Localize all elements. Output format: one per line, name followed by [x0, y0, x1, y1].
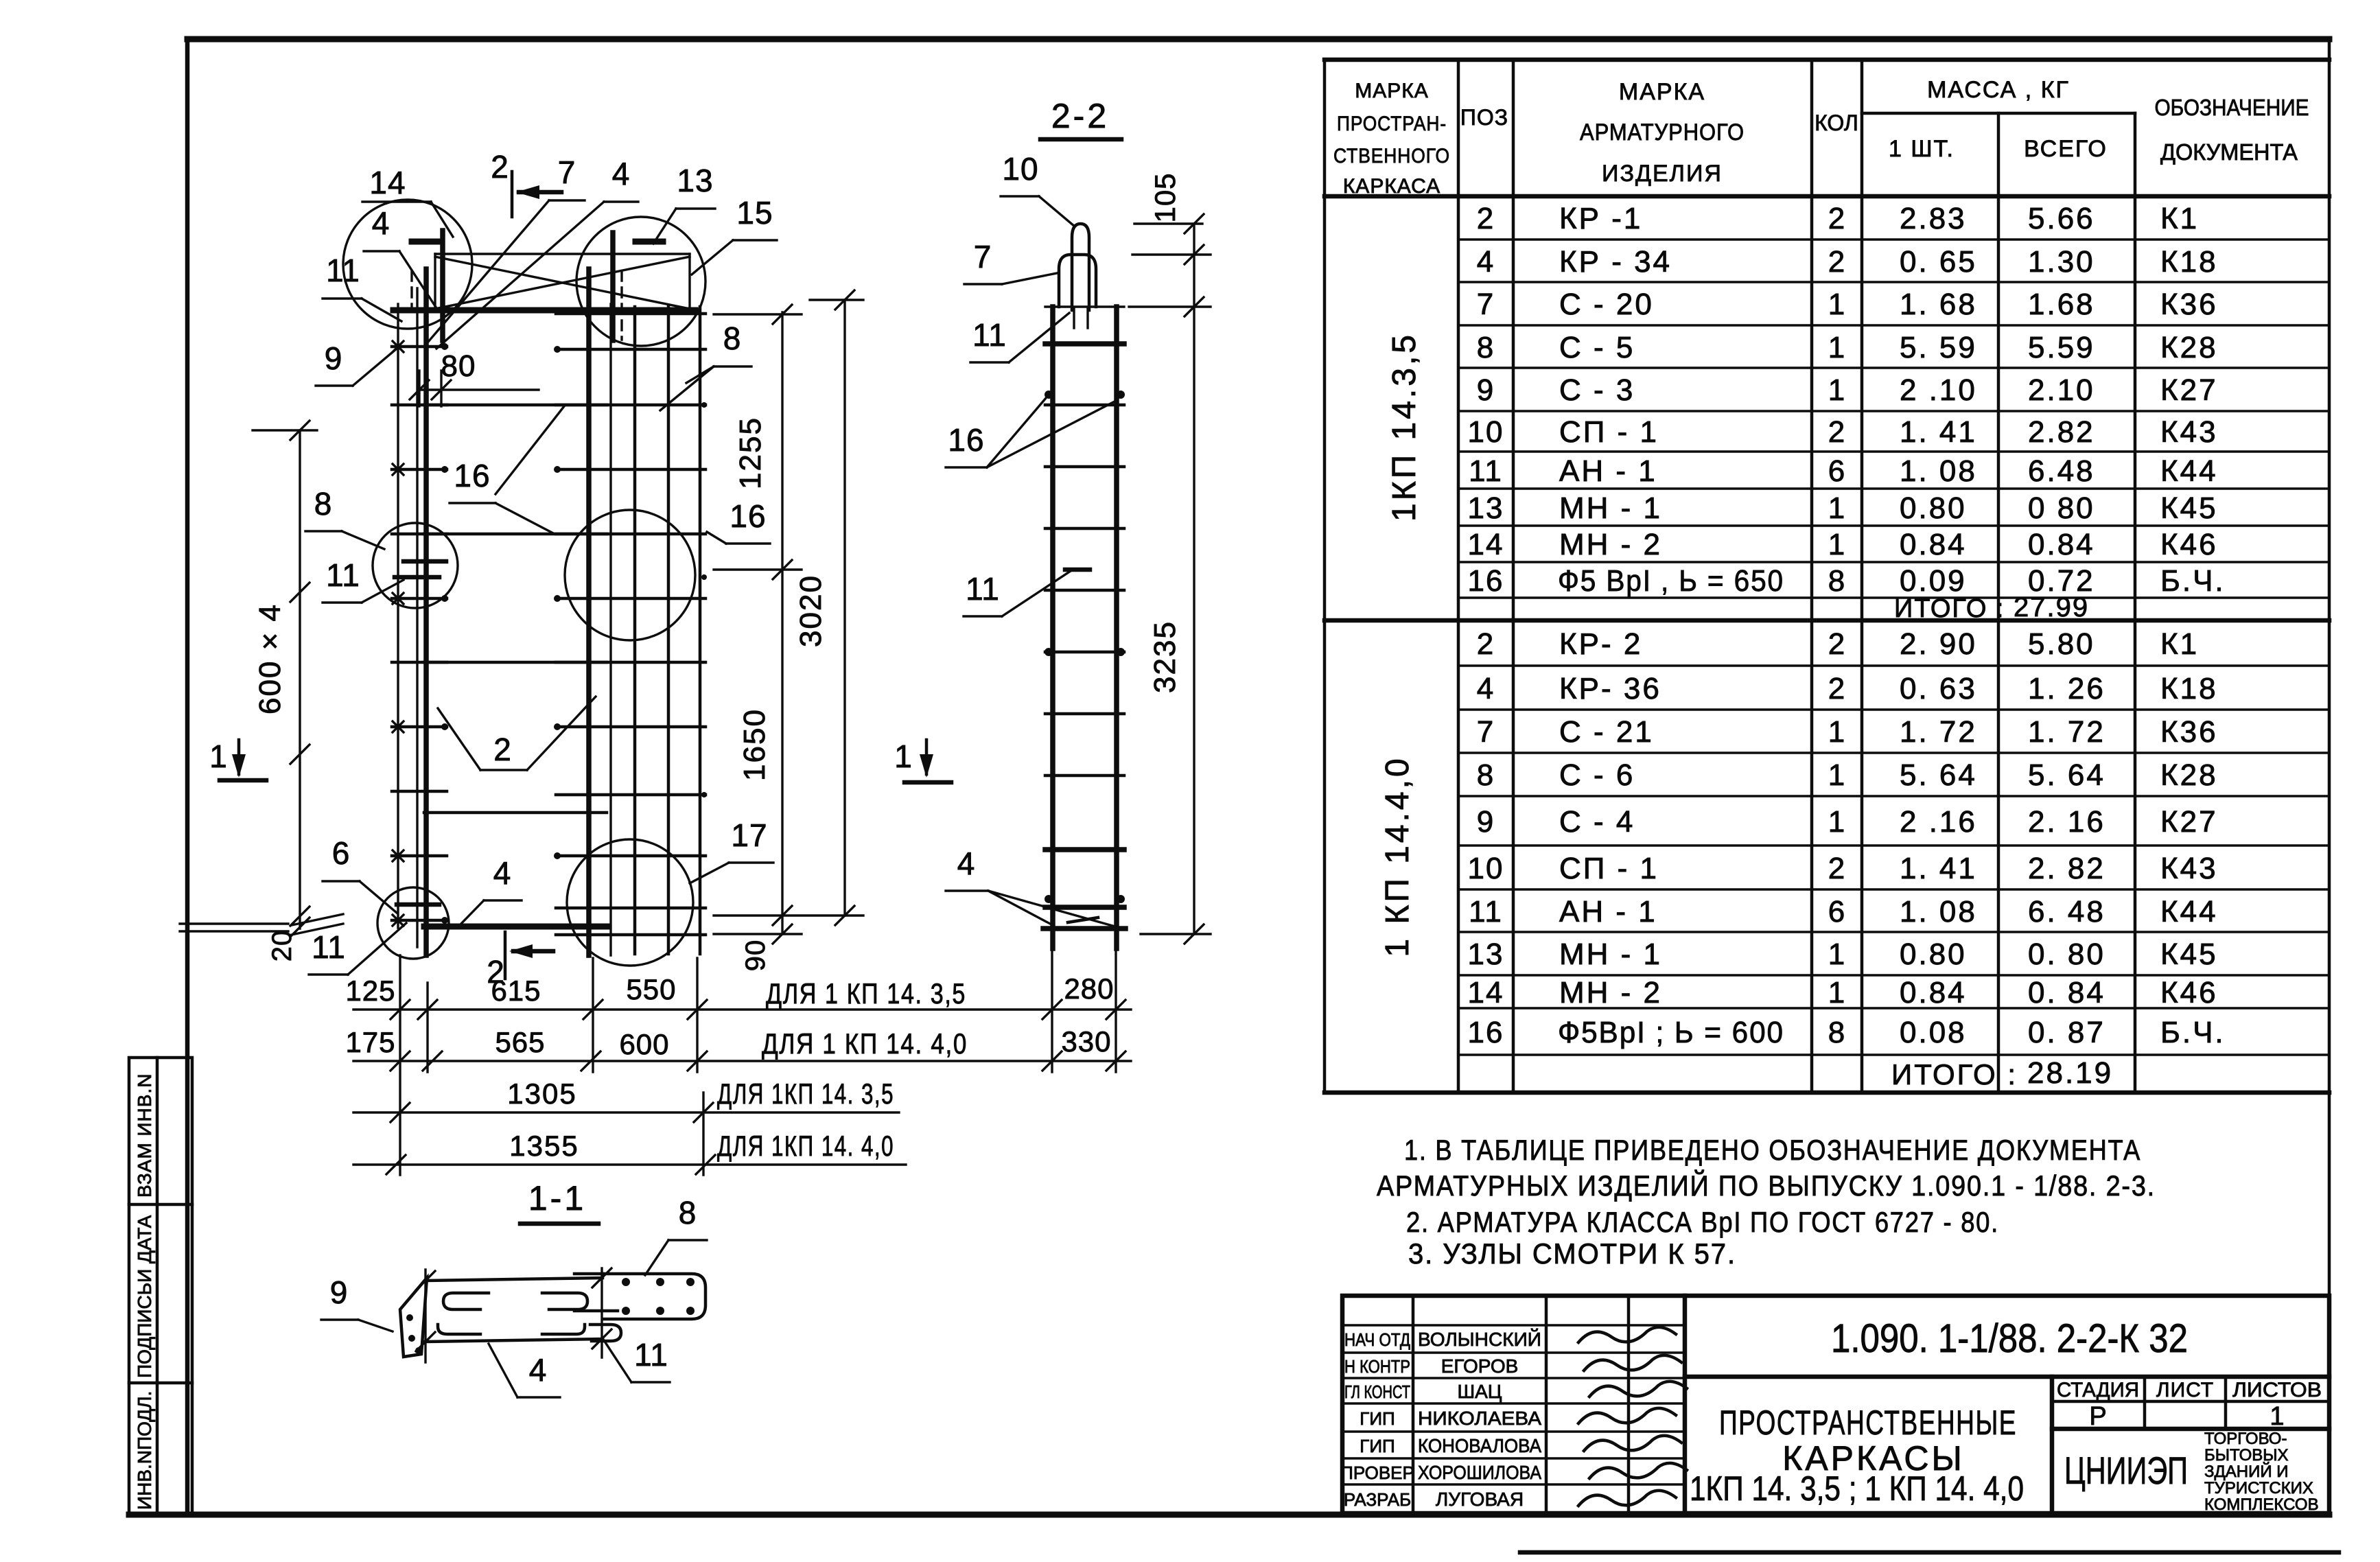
svg-text:16: 16 — [1468, 564, 1504, 598]
svg-text:1. 72: 1. 72 — [1900, 715, 1977, 749]
left splice plate — [400, 1278, 427, 1357]
svg-text:К18: К18 — [2160, 245, 2218, 279]
svg-text:1КП 14.3,5: 1КП 14.3,5 — [1386, 332, 1423, 522]
rounded bar end below — [590, 1325, 621, 1341]
svg-text:1.30: 1.30 — [2028, 245, 2095, 279]
detail circles — [343, 200, 472, 329]
svg-text:1: 1 — [1828, 288, 1845, 321]
left ladder rungs — [392, 310, 447, 313]
notes — [1377, 1134, 2156, 1270]
top pegs — [440, 231, 445, 340]
svg-text:К36: К36 — [2160, 715, 2218, 749]
svg-text:ХОРОШИЛОВА: ХОРОШИЛОВА — [1418, 1462, 1541, 1483]
svg-text:105: 105 — [1149, 172, 1181, 222]
svg-text:ПРОСТРАНСТВЕННЫЕ: ПРОСТРАНСТВЕННЫЕ — [1719, 1403, 2017, 1442]
svg-text:0. 63: 0. 63 — [1900, 672, 1977, 706]
svg-text:К27: К27 — [2160, 805, 2218, 839]
svg-text:ИТОГО :: ИТОГО : — [1894, 594, 2005, 623]
svg-text:14: 14 — [1468, 976, 1504, 1010]
svg-text:600: 600 — [619, 1028, 669, 1060]
svg-text:8: 8 — [679, 1195, 697, 1231]
title block — [1340, 1296, 2329, 1514]
svg-text:КОЛ: КОЛ — [1815, 110, 1858, 135]
break mark — [292, 914, 343, 925]
right dim 3020 — [843, 300, 845, 916]
svg-text:7: 7 — [1477, 715, 1495, 749]
svg-text:2: 2 — [491, 149, 509, 185]
svg-text:1255: 1255 — [734, 417, 767, 489]
svg-text:16: 16 — [730, 498, 766, 534]
svg-text:РАЗРАБ: РАЗРАБ — [1344, 1489, 1411, 1510]
stamp rows — [1342, 1324, 1685, 1326]
svg-text:5. 59: 5. 59 — [1900, 331, 1977, 364]
extension verticals — [399, 955, 401, 1175]
svg-text:СТВЕННОГО: СТВЕННОГО — [1333, 145, 1450, 167]
svg-text:1. 08: 1. 08 — [1900, 895, 1977, 929]
section 1-1 view — [321, 1179, 707, 1397]
svg-text:2.83: 2.83 — [1900, 202, 1967, 235]
svg-text:2. 90: 2. 90 — [1900, 627, 1977, 661]
top band edges — [434, 254, 436, 310]
svg-text:АН - 1: АН - 1 — [1559, 454, 1657, 488]
svg-text:10: 10 — [1468, 852, 1504, 885]
svg-text:1: 1 — [1828, 491, 1845, 525]
svg-text:2: 2 — [1828, 415, 1845, 449]
cage rails — [1050, 307, 1055, 948]
svg-text:ВСЕГО: ВСЕГО — [2024, 136, 2108, 162]
cage bottom chord — [1043, 926, 1125, 931]
specification table — [1325, 60, 2329, 1093]
svg-text:К44: К44 — [2160, 454, 2218, 488]
svg-text:ЛИСТОВ: ЛИСТОВ — [2232, 1379, 2322, 1401]
svg-text:0.80: 0.80 — [1900, 937, 1967, 971]
svg-text:Р: Р — [2089, 1402, 2106, 1431]
svg-text:4: 4 — [372, 205, 390, 241]
svg-text:1: 1 — [1828, 976, 1845, 1010]
svg-text:13: 13 — [1468, 937, 1504, 971]
svg-text:СП - 1: СП - 1 — [1559, 852, 1659, 885]
svg-text:ТУРИСТСКИХ: ТУРИСТСКИХ — [2204, 1479, 2313, 1497]
svg-text:8: 8 — [723, 320, 742, 356]
svg-text:К45: К45 — [2160, 937, 2218, 971]
svg-text:НАЧ ОТД: НАЧ ОТД — [1344, 1329, 1410, 1350]
svg-text:550: 550 — [626, 973, 676, 1005]
bottom chord — [424, 924, 607, 930]
svg-text:16: 16 — [948, 422, 984, 458]
svg-text:К44: К44 — [2160, 895, 2218, 929]
svg-text:8: 8 — [1828, 564, 1845, 598]
svg-text:ВОЛЫНСКИЙ: ВОЛЫНСКИЙ — [1418, 1329, 1541, 1350]
svg-text:1. 26: 1. 26 — [2028, 672, 2105, 706]
svg-text:6: 6 — [1828, 895, 1845, 929]
svg-text:15: 15 — [736, 195, 773, 231]
svg-text:1. 08: 1. 08 — [1900, 454, 1977, 488]
mark dash for 13 — [635, 239, 663, 245]
table frame horizontals — [1325, 58, 2329, 62]
svg-text:13: 13 — [677, 163, 713, 198]
lifting loop outer — [1059, 255, 1096, 307]
svg-text:6: 6 — [1828, 454, 1845, 488]
bottom dimension rows — [345, 940, 1131, 1175]
svg-text:ЛУГОВАЯ: ЛУГОВАЯ — [1436, 1489, 1524, 1510]
svg-text:600 × 4: 600 × 4 — [253, 603, 287, 714]
svg-text:ИТОГО :: ИТОГО : — [1891, 1058, 2018, 1091]
anchor dash inside cage — [1065, 568, 1090, 572]
svg-text:1. 41: 1. 41 — [1900, 415, 1977, 449]
svg-text:1: 1 — [2270, 1402, 2284, 1431]
svg-text:С - 5: С - 5 — [1559, 331, 1635, 364]
svg-text:КР - 34: КР - 34 — [1559, 245, 1672, 279]
svg-text:ЕГОРОВ: ЕГОРОВ — [1441, 1355, 1519, 1377]
svg-text:2 .16: 2 .16 — [1900, 805, 1977, 839]
svg-text:К43: К43 — [2160, 852, 2218, 885]
svg-text:11: 11 — [966, 571, 1000, 607]
svg-text:МАРКА: МАРКА — [1355, 80, 1429, 102]
between-ladder rungs — [424, 404, 607, 407]
junction ticks — [424, 1270, 426, 1362]
svg-text:1: 1 — [894, 738, 912, 774]
svg-text:3020: 3020 — [794, 574, 828, 647]
svg-text:1305: 1305 — [507, 1077, 576, 1110]
svg-text:С - 20: С - 20 — [1559, 288, 1654, 321]
svg-text:ПОЗ: ПОЗ — [1460, 105, 1508, 130]
svg-text:10: 10 — [1468, 415, 1504, 449]
mesh rungs — [556, 312, 705, 316]
svg-text:2-2: 2-2 — [1051, 97, 1109, 135]
svg-text:10: 10 — [1002, 151, 1038, 187]
svg-text:ЗДАНИЙ И: ЗДАНИЙ И — [2204, 1462, 2289, 1481]
svg-text:1: 1 — [1828, 715, 1845, 749]
svg-text:2: 2 — [493, 732, 511, 767]
svg-text:28.19: 28.19 — [2027, 1056, 2113, 1090]
svg-text:8: 8 — [1828, 1016, 1845, 1049]
svg-text:С - 6: С - 6 — [1559, 758, 1635, 792]
svg-text:11: 11 — [634, 1337, 668, 1373]
svg-text:3235: 3235 — [1148, 620, 1182, 693]
svg-text:2: 2 — [1477, 627, 1495, 661]
svg-text:80: 80 — [441, 349, 476, 383]
svg-text:0.80: 0.80 — [1900, 491, 1967, 525]
svg-text:5.59: 5.59 — [2028, 331, 2095, 364]
svg-text:2 .10: 2 .10 — [1900, 373, 1977, 407]
svg-text:1. 41: 1. 41 — [1900, 852, 1977, 885]
dim row C (1305) — [353, 1111, 899, 1113]
svg-text:2.10: 2.10 — [2028, 373, 2095, 407]
svg-text:27.99: 27.99 — [2014, 592, 2089, 622]
svg-text:К46: К46 — [2160, 528, 2218, 561]
svg-text:К45: К45 — [2160, 491, 2218, 525]
svg-text:ИНВ.NПОДЛ.: ИНВ.NПОДЛ. — [134, 1391, 155, 1510]
svg-text:МН - 2: МН - 2 — [1559, 976, 1662, 1010]
svg-text:4: 4 — [1477, 245, 1495, 279]
section 2-2 view — [894, 97, 1211, 948]
svg-text:13: 13 — [1468, 491, 1504, 525]
dim 105 — [1134, 222, 1202, 224]
front view reinforcement cage — [180, 149, 863, 990]
svg-text:0.84: 0.84 — [2028, 528, 2095, 561]
svg-text:2. АРМАТУРА КЛАССА ВрI ПО: 2. АРМАТУРА КЛАССА ВрI ПО ГОСТ 6727 - 80… — [1406, 1206, 1999, 1238]
table verticals — [1323, 60, 1327, 1093]
svg-text:5.66: 5.66 — [2028, 202, 2095, 235]
mesh long bars — [633, 307, 637, 954]
svg-text:ИЗДЕЛИЯ: ИЗДЕЛИЯ — [1602, 161, 1723, 187]
stamp verticals — [1412, 1296, 1415, 1513]
svg-text:565: 565 — [495, 1026, 545, 1058]
svg-text:ВЗАМ ИНВ.N: ВЗАМ ИНВ.N — [134, 1073, 155, 1198]
bar end dots — [1045, 390, 1053, 399]
right ladder rails — [586, 269, 592, 955]
cage rungs — [1045, 341, 1124, 347]
svg-text:0 80: 0 80 — [2028, 491, 2095, 525]
svg-text:1 КП 14.4,0: 1 КП 14.4,0 — [1379, 756, 1416, 957]
svg-text:14: 14 — [369, 165, 406, 200]
svg-text:16: 16 — [1468, 1016, 1504, 1049]
svg-text:КОМПЛЕКСОВ: КОМПЛЕКСОВ — [2204, 1495, 2319, 1514]
lifting loop inner hook — [1072, 224, 1089, 310]
svg-text:ЛИСТ: ЛИСТ — [2156, 1379, 2214, 1401]
svg-text:4: 4 — [493, 855, 512, 891]
svg-text:ДОКУМЕНТА: ДОКУМЕНТА — [2160, 139, 2298, 165]
svg-text:К28: К28 — [2160, 331, 2218, 364]
svg-text:4: 4 — [612, 156, 631, 191]
svg-text:ДЛЯ 1 КП 14. 4,0: ДЛЯ 1 КП 14. 4,0 — [762, 1027, 968, 1060]
svg-text:1КП 14. 3,5 ; 1 КП 14. 4,0: 1КП 14. 3,5 ; 1 КП 14. 4,0 — [1690, 1469, 2024, 1508]
svg-text:К27: К27 — [2160, 373, 2218, 407]
svg-text:ПРОСТРАН-: ПРОСТРАН- — [1337, 113, 1447, 135]
svg-text:280: 280 — [1064, 972, 1114, 1005]
svg-text:8: 8 — [1477, 331, 1495, 364]
svg-text:1: 1 — [209, 738, 227, 774]
svg-text:С - 21: С - 21 — [1559, 715, 1654, 749]
svg-text:330: 330 — [1061, 1025, 1111, 1058]
anchor dashes in detail circles — [404, 559, 446, 564]
svg-text:МАРКА: МАРКА — [1619, 79, 1705, 105]
svg-text:1: 1 — [1828, 373, 1845, 407]
X brace diagonals — [435, 257, 690, 309]
svg-text:ТОРГОВО-: ТОРГОВО- — [2204, 1430, 2287, 1448]
svg-text:5. 64: 5. 64 — [1900, 758, 1977, 792]
svg-text:ДЛЯ 1КП 14. 3,5: ДЛЯ 1КП 14. 3,5 — [717, 1077, 894, 1110]
svg-text:9: 9 — [325, 340, 343, 376]
svg-text:КР -1: КР -1 — [1559, 202, 1642, 235]
svg-text:2. 82: 2. 82 — [2028, 852, 2105, 885]
svg-text:ШАЦ: ШАЦ — [1457, 1381, 1502, 1402]
svg-text:1-1: 1-1 — [528, 1179, 586, 1217]
right dim 1255/1650 — [781, 312, 783, 916]
svg-text:5. 64: 5. 64 — [2028, 758, 2105, 792]
svg-text:С - 3: С - 3 — [1559, 373, 1635, 407]
svg-text:0. 87: 0. 87 — [2028, 1016, 2105, 1049]
svg-text:ПРОВЕР: ПРОВЕР — [1340, 1462, 1414, 1483]
svg-text:2: 2 — [1828, 245, 1845, 279]
svg-text:Н КОНТР: Н КОНТР — [1344, 1356, 1410, 1377]
svg-text:2: 2 — [1828, 672, 1845, 706]
svg-text:11: 11 — [972, 317, 1007, 353]
svg-text:0.09: 0.09 — [1900, 564, 1967, 598]
svg-text:1 ШТ.: 1 ШТ. — [1889, 136, 1955, 162]
svg-text:К1: К1 — [2160, 627, 2199, 661]
svg-text:1. 72: 1. 72 — [2028, 715, 2105, 749]
svg-text:ЦНИИЭП: ЦНИИЭП — [2064, 1449, 2188, 1492]
sidebar inventory strip — [129, 1058, 192, 1513]
svg-text:АРМАТУРНОГО: АРМАТУРНОГО — [1580, 119, 1745, 145]
svg-text:0. 80: 0. 80 — [2028, 937, 2105, 971]
table row lines — [1458, 238, 2329, 240]
svg-text:К28: К28 — [2160, 758, 2218, 792]
svg-text:ГИП: ГИП — [1360, 1436, 1395, 1456]
svg-text:5.80: 5.80 — [2028, 627, 2095, 661]
svg-text:16: 16 — [454, 458, 490, 493]
dim row B (1КП14.4,0) — [353, 1060, 1131, 1062]
svg-text:К36: К36 — [2160, 288, 2218, 321]
svg-text:1.68: 1.68 — [2028, 288, 2095, 321]
svg-text:11: 11 — [1469, 454, 1503, 488]
svg-text:8: 8 — [314, 486, 333, 522]
svg-text:2: 2 — [1828, 627, 1845, 661]
svg-text:ГЛ КОНСТ: ГЛ КОНСТ — [1344, 1382, 1410, 1402]
svg-text:К1: К1 — [2160, 202, 2199, 235]
svg-text:КР- 2: КР- 2 — [1559, 627, 1642, 661]
svg-text:КР- 36: КР- 36 — [1559, 672, 1661, 706]
svg-text:175: 175 — [345, 1026, 395, 1058]
svg-text:0. 84: 0. 84 — [2028, 976, 2105, 1010]
svg-text:ДЛЯ 1КП 14. 4,0: ДЛЯ 1КП 14. 4,0 — [717, 1130, 894, 1162]
svg-text:МН - 2: МН - 2 — [1559, 528, 1662, 561]
svg-text:2.82: 2.82 — [2028, 415, 2095, 449]
svg-text:0. 65: 0. 65 — [1900, 245, 1977, 279]
svg-text:Ф5 ВрI , Ь = 650: Ф5 ВрI , Ь = 650 — [1558, 564, 1784, 598]
svg-text:8: 8 — [1477, 758, 1495, 792]
svg-text:4: 4 — [1477, 672, 1495, 706]
svg-text:1. 68: 1. 68 — [1900, 288, 1977, 321]
svg-text:ГИП: ГИП — [1360, 1408, 1395, 1429]
weld x marks — [393, 341, 404, 352]
hidden bar dashes — [410, 271, 412, 309]
hook base dashes — [1073, 309, 1075, 328]
svg-text:4: 4 — [957, 846, 976, 881]
svg-text:НИКОЛАЕВА: НИКОЛАЕВА — [1418, 1408, 1541, 1429]
svg-text:9: 9 — [330, 1274, 349, 1310]
svg-text:Б.Ч.: Б.Ч. — [2160, 1016, 2226, 1049]
left dim 600x4 — [299, 430, 301, 929]
svg-text:ОБОЗНАЧЕНИЕ: ОБОЗНАЧЕНИЕ — [2155, 95, 2309, 120]
svg-text:БЫТОВЫХ: БЫТОВЫХ — [2204, 1446, 2289, 1465]
svg-text:2. 16: 2. 16 — [2028, 805, 2105, 839]
svg-text:6. 48: 6. 48 — [2028, 895, 2105, 929]
svg-text:ДЛЯ 1 КП 14. 3,5: ДЛЯ 1 КП 14. 3,5 — [766, 977, 966, 1010]
svg-text:0.84: 0.84 — [1900, 976, 1967, 1010]
svg-text:К43: К43 — [2160, 415, 2218, 449]
svg-text:7: 7 — [974, 239, 992, 275]
svg-text:КОНОВАЛОВА: КОНОВАЛОВА — [1418, 1435, 1541, 1456]
svg-text:АН - 1: АН - 1 — [1559, 895, 1657, 929]
svg-text:11: 11 — [312, 929, 346, 965]
svg-text:11: 11 — [326, 253, 360, 288]
svg-text:2: 2 — [1828, 852, 1845, 885]
svg-text:11: 11 — [326, 557, 360, 593]
svg-text:МАССА , КГ: МАССА , КГ — [1927, 77, 2070, 103]
svg-text:С - 4: С - 4 — [1559, 805, 1635, 839]
svg-text:615: 615 — [491, 975, 541, 1007]
svg-text:9: 9 — [1477, 373, 1495, 407]
mark dash for 4 (top left) — [412, 239, 439, 245]
svg-text:125: 125 — [345, 975, 395, 1007]
svg-text:1: 1 — [1828, 805, 1845, 839]
dim 3235 — [1193, 224, 1195, 934]
svg-text:СТАДИЯ: СТАДИЯ — [2057, 1379, 2139, 1401]
signatures — [1578, 1327, 1676, 1342]
svg-text:1: 1 — [1828, 528, 1845, 561]
right dim 90 — [781, 916, 783, 934]
svg-text:МН - 1: МН - 1 — [1559, 937, 1662, 971]
svg-text:1: 1 — [1828, 758, 1845, 792]
svg-text:1. В ТАБЛИЦЕ ПРИВЕДЕНО ОБО: 1. В ТАБЛИЦЕ ПРИВЕДЕНО ОБОЗНАЧЕНИЕ ДОКУМ… — [1404, 1134, 2141, 1166]
arrow dash in cage bottom — [1068, 918, 1098, 922]
svg-text:0.08: 0.08 — [1900, 1016, 1967, 1049]
svg-text:КАРКАСА: КАРКАСА — [1343, 175, 1440, 198]
svg-text:К46: К46 — [2160, 976, 2218, 1010]
svg-text:2: 2 — [1477, 202, 1495, 235]
svg-text:6: 6 — [332, 835, 351, 871]
left ladder rails — [397, 304, 399, 928]
svg-text:1: 1 — [1828, 937, 1845, 971]
svg-text:К18: К18 — [2160, 672, 2218, 706]
svg-text:11: 11 — [1469, 895, 1503, 929]
svg-text:1: 1 — [1828, 331, 1845, 364]
dim row D (1355) — [353, 1163, 906, 1165]
doc number cell — [1685, 1375, 2329, 1379]
svg-text:4: 4 — [529, 1352, 548, 1388]
svg-text:Ф5ВрI ; Ь = 600: Ф5ВрI ; Ь = 600 — [1558, 1016, 1784, 1049]
svg-text:3. УЗЛЫ СМОТРИ К 57.: 3. УЗЛЫ СМОТРИ К 57. — [1408, 1237, 1736, 1270]
svg-text:9: 9 — [1477, 805, 1495, 839]
svg-text:1355: 1355 — [509, 1130, 579, 1162]
svg-text:1650: 1650 — [738, 708, 771, 781]
svg-text:90: 90 — [740, 940, 771, 972]
top band — [435, 253, 690, 255]
svg-text:ПОДПИСЬИ ДАТА: ПОДПИСЬИ ДАТА — [134, 1215, 155, 1378]
svg-text:Б.Ч.: Б.Ч. — [2160, 564, 2226, 598]
svg-text:0.84: 0.84 — [1900, 528, 1967, 561]
svg-text:17: 17 — [731, 817, 767, 853]
svg-text:7: 7 — [1477, 288, 1495, 321]
svg-text:СП - 1: СП - 1 — [1559, 415, 1659, 449]
body top/bottom lines — [425, 1278, 603, 1281]
svg-text:МН - 1: МН - 1 — [1559, 491, 1662, 525]
svg-text:7: 7 — [558, 154, 576, 190]
svg-text:АРМАТУРНЫХ ИЗДЕЛИЙ ПО ВЫП: АРМАТУРНЫХ ИЗДЕЛИЙ ПО ВЫПУСКУ 1.090.1 - … — [1377, 1169, 2156, 1202]
svg-text:2: 2 — [1828, 202, 1845, 235]
mesh strip cross-section — [603, 1274, 705, 1319]
svg-text:14: 14 — [1468, 528, 1504, 561]
dim row A (1КП14.3,5) — [353, 1008, 1131, 1010]
cage top line — [1045, 305, 1124, 307]
anchor hooks — [443, 1293, 489, 1309]
svg-text:1.090. 1-1/88. 2-2-К 32: 1.090. 1-1/88. 2-2-К 32 — [1831, 1316, 2188, 1361]
svg-text:6.48: 6.48 — [2028, 454, 2095, 488]
